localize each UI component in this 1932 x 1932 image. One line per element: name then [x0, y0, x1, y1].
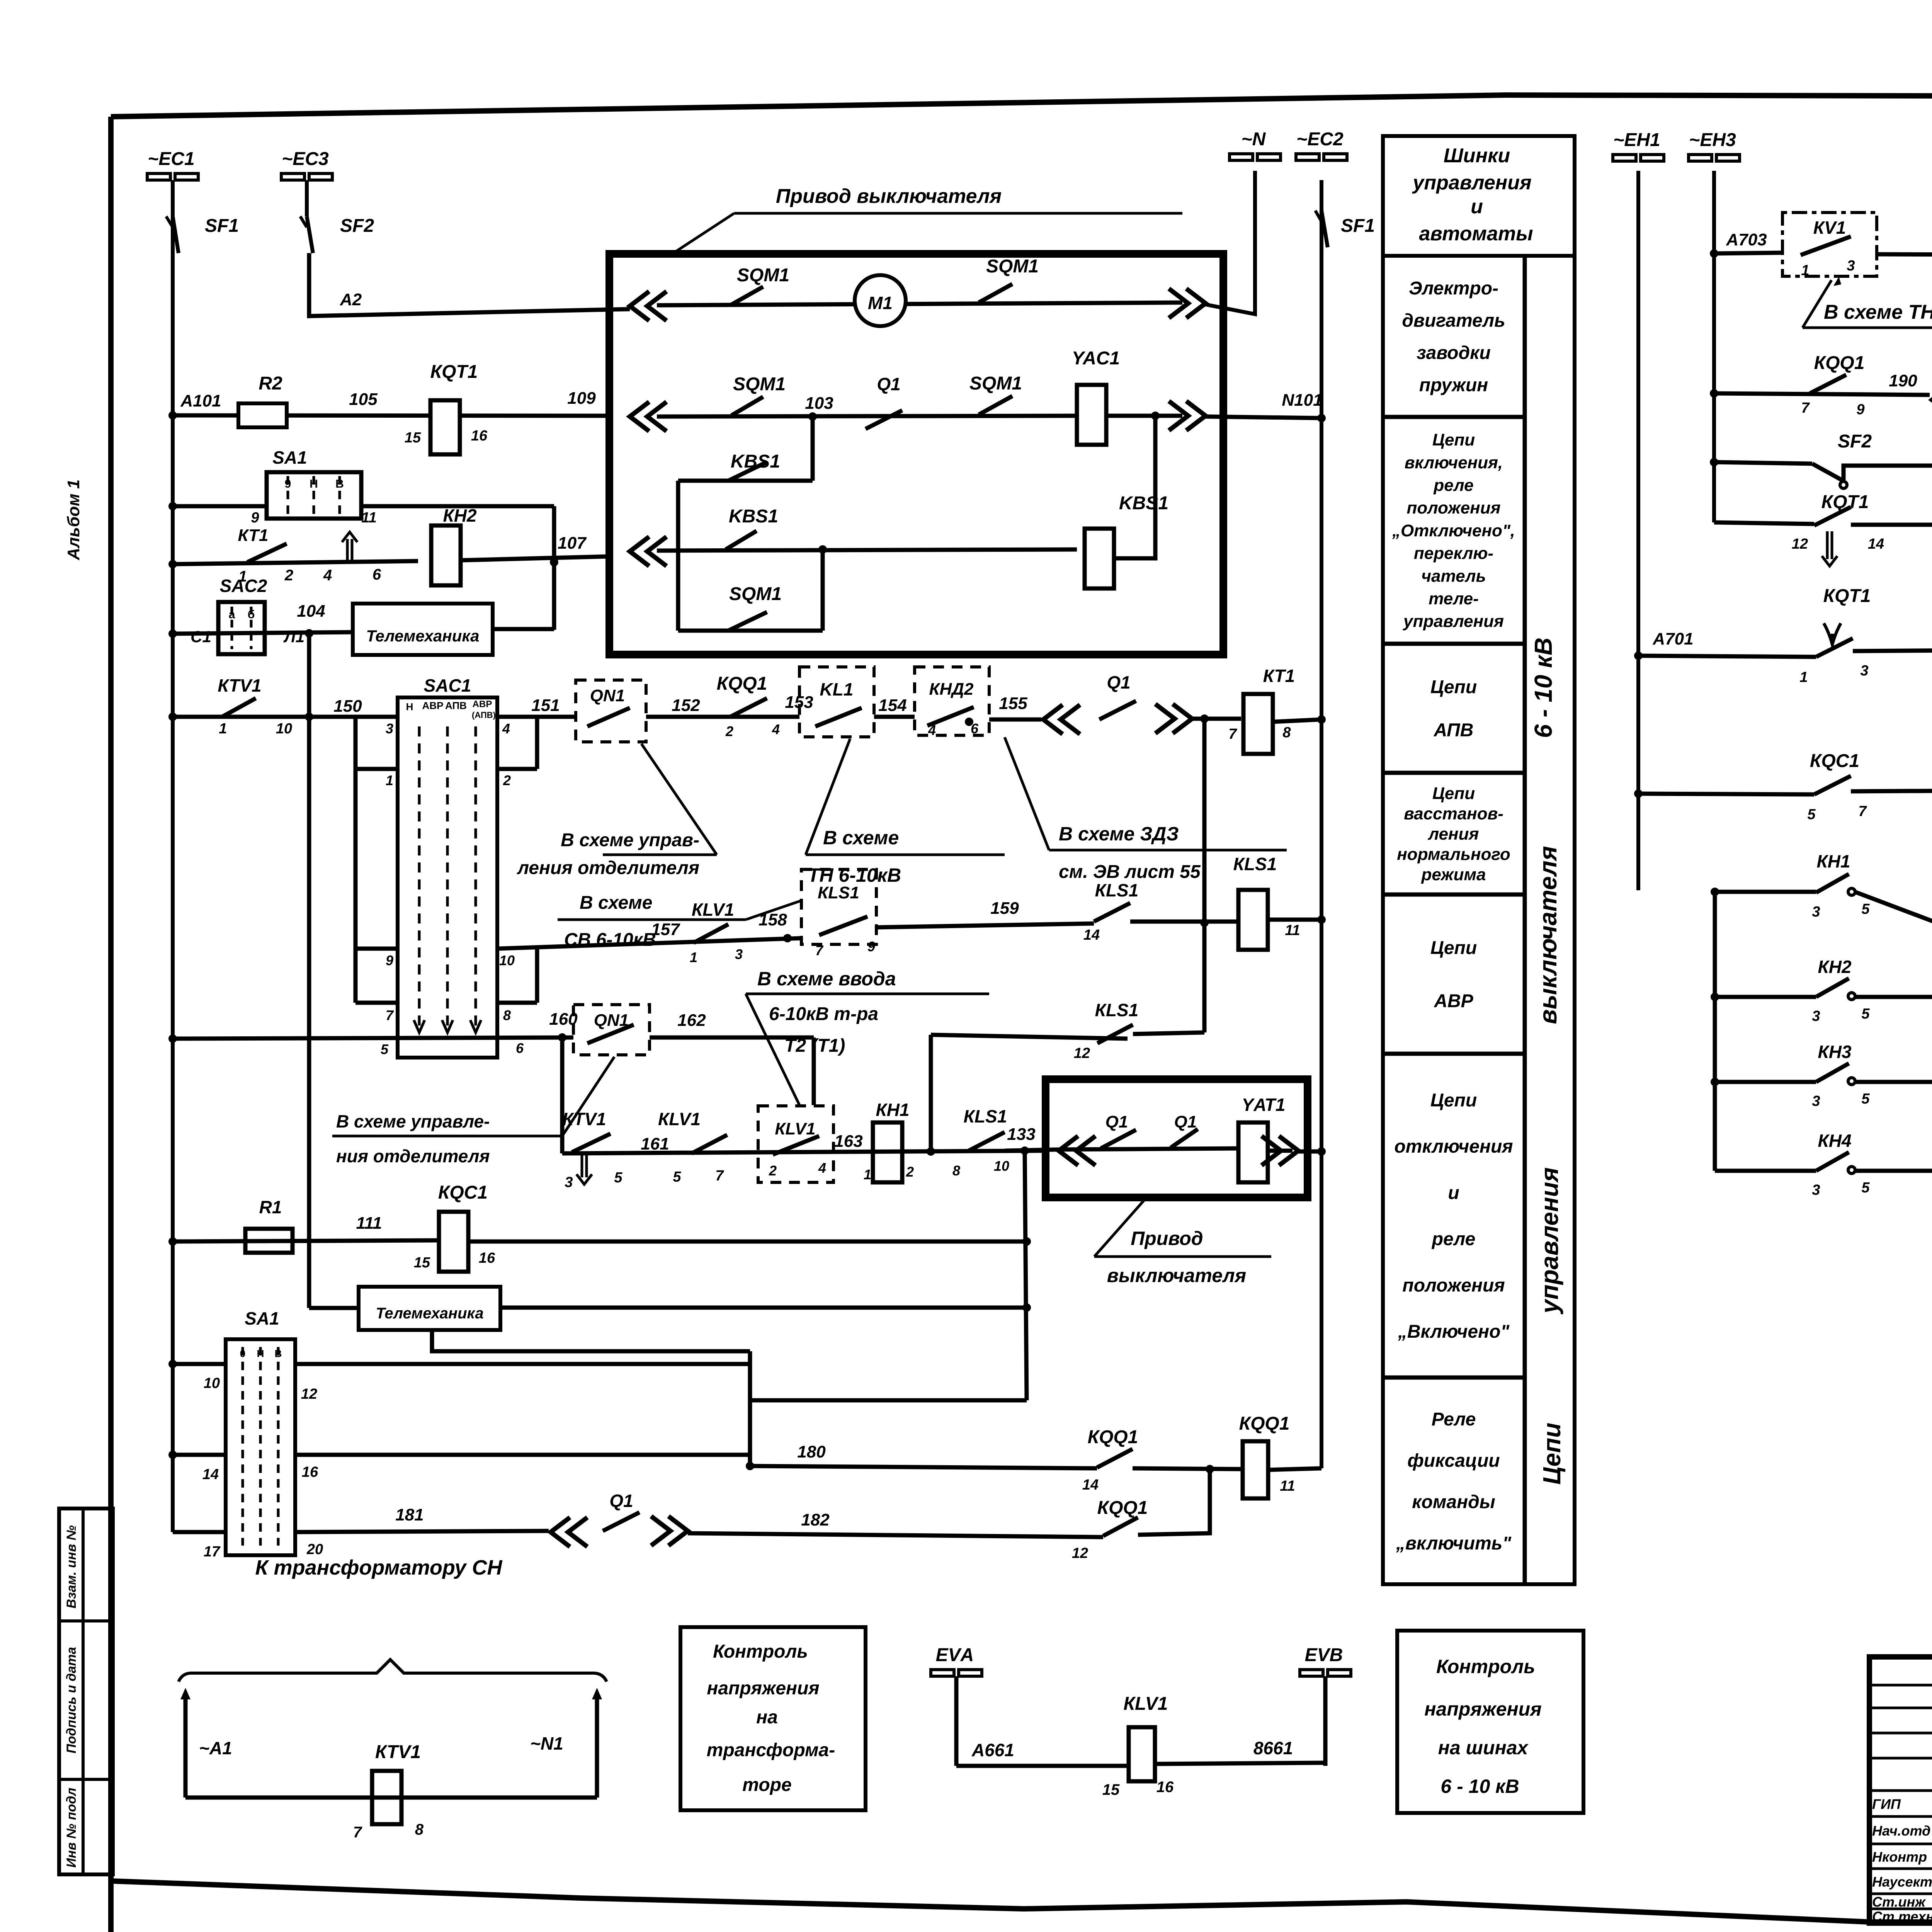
contact KLV1 5/7 — [692, 1135, 727, 1153]
svg-text:SQM1: SQM1 — [986, 256, 1039, 277]
title row — [1869, 1707, 1932, 1709]
svg-text:Шинки: Шинки — [1444, 145, 1510, 167]
junction EH3 lower — [1711, 888, 1719, 896]
svg-text:выключателя: выключателя — [1107, 1265, 1246, 1286]
svg-text:9: 9 — [285, 478, 291, 490]
svg-text:8: 8 — [1282, 724, 1291, 741]
svg-text:6 - 10 кВ: 6 - 10 кВ — [1529, 638, 1557, 738]
svg-text:Контроль: Контроль — [1436, 1656, 1535, 1677]
svg-text:АВР: АВР — [1434, 991, 1473, 1011]
wire — [1106, 414, 1182, 418]
svg-text:КLS1: КLS1 — [1233, 854, 1277, 874]
svg-text:17: 17 — [204, 1544, 221, 1560]
arrow left — [184, 1692, 188, 1798]
svg-text:R2: R2 — [259, 373, 282, 394]
svg-text:КНД2: КНД2 — [929, 680, 974, 699]
leader — [670, 213, 734, 255]
svg-text:104: 104 — [297, 602, 325, 621]
box Kontrol napryazheniya na shinah — [1397, 1631, 1583, 1813]
contact KQQ1 — [730, 698, 767, 717]
svg-text:Н: Н — [257, 1348, 264, 1359]
svg-text:~EH1: ~EH1 — [1613, 130, 1660, 150]
svg-text:Наусект: Наусект — [1872, 1874, 1932, 1890]
KQT1 Y symbol — [1824, 623, 1841, 645]
svg-text:васстанов-: васстанов- — [1404, 804, 1503, 823]
svg-text:20: 20 — [306, 1541, 323, 1558]
svg-text:ния отделителя: ния отделителя — [336, 1146, 490, 1166]
svg-text:3: 3 — [565, 1174, 573, 1190]
wire to bus — [1268, 918, 1321, 922]
wire SF2 to 193 — [1844, 466, 1932, 522]
leader to QN1 — [562, 1057, 614, 1136]
svg-text:5: 5 — [1861, 1006, 1870, 1022]
svg-text:16: 16 — [1156, 1779, 1174, 1796]
arrow << row1 — [630, 291, 667, 321]
svg-text:7: 7 — [715, 1168, 724, 1184]
wire 155 — [989, 718, 1041, 722]
svg-text:и: и — [1448, 1183, 1459, 1203]
contact QN1 lower dashed — [573, 1005, 650, 1055]
svg-text:15: 15 — [414, 1255, 430, 1271]
underline — [734, 212, 1182, 215]
wire row 103 — [657, 416, 1078, 417]
leader to KND2 — [1005, 737, 1049, 850]
svg-text:1: 1 — [690, 949, 697, 965]
leader — [1803, 280, 1832, 328]
svg-text:Н: Н — [406, 701, 413, 713]
relay coil — [1238, 1122, 1268, 1182]
wire — [821, 549, 825, 631]
svg-text:теле-: теле- — [1429, 589, 1478, 608]
svg-text:отключения: отключения — [1394, 1136, 1513, 1157]
relay coil — [1129, 1727, 1155, 1781]
svg-text:КQС1: КQС1 — [438, 1182, 488, 1203]
section divider — [1383, 771, 1525, 775]
section divider — [1383, 1376, 1525, 1380]
contact in QN1 — [587, 708, 630, 726]
svg-text:105: 105 — [349, 390, 378, 409]
column outer box — [1383, 256, 1575, 1584]
wire row 157 — [497, 938, 801, 949]
wire row in box2 — [1057, 1148, 1239, 1150]
svg-text:2: 2 — [725, 723, 733, 739]
svg-text:9: 9 — [251, 510, 259, 526]
svg-text:на шинах: на шинах — [1438, 1737, 1529, 1759]
svg-text:напряжения: напряжения — [707, 1678, 819, 1699]
svg-text:КLV1: КLV1 — [775, 1119, 815, 1138]
svg-text:~А1: ~А1 — [199, 1738, 232, 1758]
svg-text:КQQ1: КQQ1 — [1814, 353, 1865, 373]
arrow << row3 — [630, 537, 667, 566]
svg-text:109: 109 — [567, 389, 596, 408]
svg-text:В: В — [335, 478, 344, 490]
stub pin2 — [497, 767, 537, 771]
arrow << — [551, 1517, 587, 1547]
svg-text:Контроль: Контроль — [713, 1641, 808, 1662]
svg-text:0: 0 — [240, 1348, 245, 1359]
svg-text:15: 15 — [405, 430, 421, 446]
contact KLS1 12 — [1097, 1025, 1133, 1043]
wire N101 — [1206, 417, 1321, 418]
svg-text:А701: А701 — [1652, 629, 1693, 648]
stub pin9 — [355, 947, 398, 951]
svg-text:Инв № подл: Инв № подл — [64, 1787, 79, 1867]
svg-text:10: 10 — [499, 952, 515, 968]
wire down — [552, 506, 556, 630]
svg-text:чатель: чатель — [1421, 566, 1486, 585]
svg-text:КLS1: КLS1 — [1095, 1000, 1139, 1020]
svg-text:~N: ~N — [1242, 129, 1266, 150]
svg-text:1: 1 — [1799, 669, 1808, 685]
wire SAC1 left riser — [354, 717, 358, 1003]
contact КН2 3/5 — [1816, 978, 1849, 997]
busbar EVB — [1300, 1670, 1351, 1676]
breaker SF1 right — [1315, 211, 1321, 221]
contact in KLS1 7/9 — [819, 917, 867, 935]
svg-text:3: 3 — [1812, 904, 1820, 920]
svg-text:нормального: нормального — [1397, 845, 1510, 864]
contact Q1 a — [1101, 1130, 1136, 1148]
wire — [1130, 920, 1240, 924]
svg-text:Цепи: Цепи — [1432, 784, 1475, 803]
frame bottom edge — [111, 1881, 1932, 1923]
svg-text:КН1: КН1 — [876, 1100, 909, 1120]
svg-text:Ст техн: Ст техн — [1872, 1909, 1932, 1925]
contact SF2 diagonal — [1812, 464, 1842, 480]
busbar EC3 — [281, 173, 332, 180]
svg-text:9: 9 — [867, 939, 875, 954]
svg-text:КТV1: КТV1 — [562, 1109, 606, 1129]
relay coil — [1085, 529, 1114, 588]
leader to KLV1 box — [746, 994, 800, 1106]
svg-text:5: 5 — [614, 1170, 622, 1186]
wire to bus end — [1268, 1468, 1321, 1470]
svg-text:152: 152 — [672, 696, 700, 715]
svg-text:14: 14 — [1083, 927, 1100, 943]
svg-text:КQQ1: КQQ1 — [717, 673, 767, 694]
contact KND2 dashed — [915, 667, 989, 735]
title row — [1869, 1867, 1932, 1870]
wire row КН2 — [1715, 995, 1816, 999]
svg-text:В схеме: В схеме — [823, 827, 899, 849]
riser x2657 — [1025, 1151, 1027, 1400]
svg-text:Q1: Q1 — [877, 374, 900, 394]
relay coil — [431, 526, 461, 585]
wire 182 — [688, 1533, 1103, 1537]
svg-text:Q1: Q1 — [1105, 1112, 1128, 1131]
svg-text:5: 5 — [1861, 1091, 1870, 1107]
svg-text:~EC2: ~EC2 — [1296, 129, 1344, 150]
contact KQT1 12/14 — [1814, 507, 1851, 526]
wire row SF2 — [1710, 458, 1718, 466]
svg-text:АВР: АВР — [473, 699, 492, 709]
relay coil — [439, 1212, 468, 1272]
wire EVA drop — [954, 1676, 959, 1766]
svg-text:Привод выключателя: Привод выключателя — [776, 185, 1002, 207]
wire to N busbar — [1206, 171, 1255, 314]
title row — [1869, 1757, 1932, 1760]
arrow << — [1043, 705, 1080, 734]
svg-text:„включить": „включить" — [1396, 1533, 1512, 1554]
resistor R2 — [238, 403, 287, 427]
svg-text:Нач.отд: Нач.отд — [1872, 1823, 1930, 1839]
svg-text:2: 2 — [906, 1164, 914, 1180]
contact KLV1 — [694, 924, 728, 943]
svg-text:7: 7 — [1801, 400, 1810, 416]
junction 133 — [1020, 1146, 1029, 1155]
svg-text:АПВ: АПВ — [1434, 720, 1474, 740]
wire 104 down — [307, 633, 311, 1308]
arrow right — [595, 1692, 599, 1798]
svg-text:R1: R1 — [259, 1197, 282, 1217]
svg-text:SAC1: SAC1 — [424, 675, 471, 696]
svg-text:8: 8 — [503, 1007, 511, 1023]
frame left edge — [108, 117, 114, 1932]
svg-text:7: 7 — [386, 1007, 394, 1023]
svg-text:N101: N101 — [1282, 391, 1322, 410]
svg-text:6 - 10 кВ: 6 - 10 кВ — [1440, 1776, 1519, 1797]
svg-text:пружин: пружин — [1419, 375, 1488, 395]
svg-text:8: 8 — [415, 1821, 424, 1838]
busbar N — [1230, 154, 1281, 160]
drive box (Privod) bottom — [1046, 1079, 1308, 1197]
svg-text:Реле: Реле — [1432, 1409, 1476, 1430]
wire EC3 drop — [305, 180, 309, 216]
svg-text:КV1: КV1 — [1813, 218, 1846, 238]
svg-text:4: 4 — [772, 721, 780, 737]
contact SQM1 row2 — [731, 397, 763, 415]
contact in KV1 — [1801, 236, 1851, 255]
svg-text:КТ1: КТ1 — [238, 526, 269, 545]
svg-text:Цепи: Цепи — [1430, 1090, 1477, 1111]
svg-text:реле: реле — [1431, 1229, 1476, 1250]
contact in KL1 — [815, 708, 862, 726]
svg-text:(АПВ): (АПВ) — [472, 710, 496, 720]
wire — [1133, 1032, 1204, 1034]
svg-text:КLV1: КLV1 — [1124, 1694, 1168, 1714]
contact KQQ1 12 — [1103, 1517, 1138, 1536]
svg-text:SF1: SF1 — [205, 216, 239, 236]
contact SQM1 bottom — [728, 612, 767, 631]
svg-text:В схеме управ-: В схеме управ- — [561, 830, 699, 850]
relay coil — [1243, 1441, 1268, 1498]
svg-text:ления: ления — [1428, 825, 1479, 844]
svg-text:155: 155 — [999, 694, 1027, 713]
arrow >> row1 — [1169, 289, 1206, 318]
svg-text:5: 5 — [1861, 1180, 1870, 1196]
contact SQM1 row1a — [730, 287, 763, 305]
wire row 107 — [168, 560, 177, 568]
svg-text:реле: реле — [1433, 476, 1473, 495]
wire vertical 3117 — [1202, 719, 1207, 1032]
wire row 160 — [168, 1034, 177, 1043]
contact in QN1 — [587, 1025, 634, 1043]
svg-text:торе: торе — [742, 1775, 791, 1795]
svg-text:включения,: включения, — [1405, 453, 1503, 472]
svg-text:команды: команды — [1412, 1492, 1495, 1512]
svg-text:14: 14 — [1868, 536, 1884, 552]
wire KBS1 branch — [678, 479, 813, 483]
junction — [818, 545, 827, 554]
contact KQQ1 14 — [1097, 1449, 1133, 1468]
svg-text:SQM1: SQM1 — [733, 374, 786, 395]
contact KLV1 dashed box — [758, 1106, 833, 1182]
drive box (Привод выключателя) top — [609, 254, 1223, 655]
svg-text:6-10кВ т-ра: 6-10кВ т-ра — [769, 1004, 878, 1024]
svg-text:A2: A2 — [340, 290, 362, 309]
svg-text:7: 7 — [1228, 726, 1237, 742]
svg-text:5: 5 — [673, 1169, 681, 1185]
svg-text:КLS1: КLS1 — [818, 883, 859, 902]
svg-text:SF2: SF2 — [340, 216, 374, 236]
wire EVB drop — [1323, 1676, 1328, 1766]
title row — [1869, 1843, 1932, 1845]
wire from SA1 — [361, 504, 554, 509]
section divider — [1383, 1052, 1525, 1056]
svg-text:7: 7 — [1858, 803, 1867, 820]
wire A661 row — [956, 1764, 1130, 1768]
svg-text:4: 4 — [502, 721, 510, 736]
contact in KND2 — [927, 707, 974, 726]
svg-text:11: 11 — [1285, 922, 1300, 939]
junction on EC2 bus — [1317, 414, 1326, 422]
svg-text:трансформа-: трансформа- — [707, 1740, 835, 1760]
svg-text:управления: управления — [1412, 172, 1531, 194]
contact KBS1 — [728, 462, 767, 481]
svg-text:133: 133 — [1007, 1125, 1035, 1144]
wire — [493, 627, 554, 631]
svg-text:1: 1 — [219, 721, 227, 737]
contact Q1 b — [1171, 1129, 1198, 1148]
svg-text:Альбом 1: Альбом 1 — [64, 480, 83, 561]
wire down from 103 — [811, 417, 815, 481]
wire A2 — [309, 253, 630, 316]
contact KLS1 14 — [1094, 903, 1130, 922]
title row — [1869, 1732, 1932, 1735]
wire 171 — [1851, 789, 1932, 791]
title row — [1869, 1684, 1932, 1687]
svg-text:SAC2: SAC2 — [220, 576, 267, 596]
wire KTV1 branch — [560, 1037, 565, 1153]
wire 170 — [1853, 648, 1932, 651]
wire SA1 row3 — [173, 1530, 226, 1534]
svg-text:~EC1: ~EC1 — [148, 149, 194, 169]
svg-text:Н: Н — [310, 478, 318, 490]
wire motor row — [657, 303, 1182, 305]
svg-text:В: В — [275, 1348, 282, 1359]
wire main row — [562, 1151, 1046, 1153]
wire SA1 row1 — [168, 1360, 177, 1368]
junction — [1200, 714, 1209, 723]
svg-text:Q1: Q1 — [609, 1491, 633, 1511]
wire row 180 — [746, 1462, 754, 1470]
busbar EC1 — [147, 173, 198, 180]
node 103 dot — [808, 412, 817, 421]
arrow >> — [1262, 1136, 1298, 1165]
brace — [179, 1660, 607, 1682]
svg-text:ТН 6-10кВ: ТН 6-10кВ — [808, 864, 901, 886]
busbar EH1 — [1613, 155, 1664, 161]
svg-text:10: 10 — [276, 721, 292, 737]
wire 181 — [295, 1531, 549, 1532]
contact КН3 3/5 — [1816, 1063, 1849, 1082]
relay coil — [1077, 385, 1106, 445]
svg-text:12: 12 — [301, 1386, 317, 1402]
svg-text:14: 14 — [1082, 1477, 1099, 1493]
leader — [1094, 1200, 1145, 1257]
svg-text:107: 107 — [558, 534, 587, 553]
svg-text:KBS1: KBS1 — [729, 506, 778, 527]
leader — [746, 900, 802, 920]
title row — [1869, 1815, 1932, 1818]
leader to KL1 — [806, 739, 850, 855]
KN ladder left riser — [1713, 892, 1717, 1171]
wire up — [1138, 1470, 1210, 1535]
wire row 171 — [1634, 789, 1643, 798]
wire 159 — [876, 923, 1094, 927]
svg-text:КQQ1: КQQ1 — [1088, 1427, 1138, 1447]
svg-text:163: 163 — [834, 1132, 862, 1151]
coil KQT1 — [430, 400, 460, 454]
box Telemehanika — [353, 604, 493, 655]
contact KQQ1 — [1810, 375, 1846, 393]
wire row A703 — [1710, 249, 1718, 258]
busbar EH3 — [1689, 155, 1740, 161]
wire link 3624 — [750, 1398, 1027, 1403]
frame top edge — [111, 95, 1932, 117]
svg-text:12: 12 — [1072, 1545, 1088, 1561]
title row — [1869, 1893, 1932, 1895]
wire row 150 — [168, 713, 177, 721]
svg-text:КТ1: КТ1 — [1263, 666, 1295, 686]
svg-text:см. ЭВ лист 55: см. ЭВ лист 55 — [1059, 862, 1201, 882]
contact KV1 dashed — [1782, 213, 1877, 276]
svg-text:Подпись и дата: Подпись и дата — [64, 1647, 79, 1753]
wire to bus — [1273, 719, 1321, 722]
svg-text:150: 150 — [333, 697, 362, 716]
busbar EC2 — [1296, 154, 1347, 160]
svg-text:151: 151 — [531, 696, 560, 715]
contact KQT1 1/3 — [1816, 638, 1853, 657]
svg-text:КQТ1: КQТ1 — [1823, 586, 1871, 606]
contact KTV1 — [222, 698, 256, 717]
svg-text:180: 180 — [797, 1442, 826, 1461]
svg-text:7: 7 — [815, 942, 824, 958]
wire from 104 riser — [309, 1306, 359, 1310]
svg-text:6: 6 — [516, 1040, 524, 1056]
T junction — [1200, 918, 1209, 927]
svg-text:190: 190 — [1889, 371, 1917, 390]
svg-text:А661: А661 — [971, 1740, 1014, 1760]
svg-text:QN1: QN1 — [590, 686, 625, 705]
svg-text:10: 10 — [994, 1158, 1009, 1174]
wire down to KLV1 — [812, 1037, 816, 1105]
arrow << row2 — [630, 402, 667, 431]
svg-text:на: на — [756, 1707, 778, 1728]
wire row R1/111 — [168, 1237, 177, 1246]
svg-text:КQС1: КQС1 — [1810, 751, 1859, 771]
relay coil — [1238, 890, 1268, 950]
svg-text:154: 154 — [878, 696, 906, 715]
svg-text:Электро-: Электро- — [1409, 278, 1498, 299]
svg-text:KL1: KL1 — [820, 679, 854, 699]
svg-text:КLS1: КLS1 — [1095, 880, 1139, 900]
svg-text:7: 7 — [353, 1824, 362, 1841]
contact KTV1 3/5 — [572, 1134, 611, 1152]
breaker SF1 left — [173, 216, 179, 253]
svg-text:В схеме управле-: В схеме управле- — [336, 1111, 490, 1131]
svg-text:и: и — [1471, 196, 1483, 218]
